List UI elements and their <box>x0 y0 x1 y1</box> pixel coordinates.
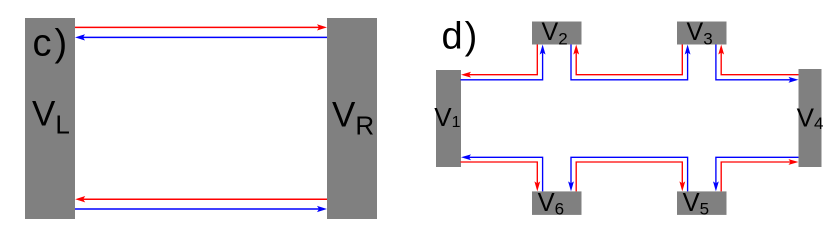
wire: blue channel V_3 to V_4 (top-right, rightward arrow into V_4) <box>716 45 799 83</box>
wire: blue edge channel, panel c top, leftward into V_L <box>75 34 327 40</box>
wire: blue channel V_2 to V_3 (top-middle, upward arrow into V_3) <box>571 45 691 80</box>
wire: red channel V_3 to V_2 (top-middle, upward arrow into V_2) <box>573 45 682 75</box>
wire: red channel V_2 to V_1 (top-left, leftward arrow into V_1) <box>461 45 537 78</box>
wire: red channel V_5 to V_4 (bottom-right, rightward arrow into V_4) <box>721 159 798 191</box>
contact V_6 (bottom-left electrode, panel d) <box>532 191 582 215</box>
contact V_1 (left electrode, panel d) <box>436 70 461 167</box>
wire: blue channel V_4 to V_5 (bottom-right, downward arrow into V_5) <box>713 157 799 191</box>
contact V_5 (bottom-right electrode, panel d) <box>677 191 727 215</box>
contact V_3 (top-right electrode, panel d) <box>677 22 727 45</box>
contact V_L (left gray electrode, panel c) <box>25 18 75 219</box>
wire: blue channel V_6 to V_1 (bottom-left, leftward arrow into V_1) <box>461 154 543 191</box>
wire: blue channel V_5 to V_6 (bottom-middle, downward arrow into V_6) <box>568 157 688 191</box>
wire: red channel V_6 to V_5 (bottom-middle, downward arrow into V_5) <box>576 162 685 191</box>
wire: red edge channel, panel c top, rightward into V_R <box>75 24 327 30</box>
wire: red channel V_4 to V_3 (top-right, upward arrow into V_3) <box>718 45 798 75</box>
svg-text:c): c) <box>33 23 71 65</box>
contact V_4 (right electrode, panel d) <box>799 69 822 167</box>
wire: blue edge channel, panel c bottom, rightward into V_R <box>75 206 327 212</box>
contact V_2 (top-left electrode, panel d) <box>532 22 582 45</box>
contact V_R (right gray electrode, panel c) <box>327 18 377 219</box>
wire: red channel V_1 to V_6 (bottom-left, downward arrow into V_6) <box>461 162 541 191</box>
wire: red edge channel, panel c bottom, leftward into V_L <box>75 196 327 202</box>
wire: blue channel V_1 to V_2 (top-left, upward arrow into V_2) <box>461 45 546 80</box>
svg-text:d): d) <box>442 16 480 58</box>
